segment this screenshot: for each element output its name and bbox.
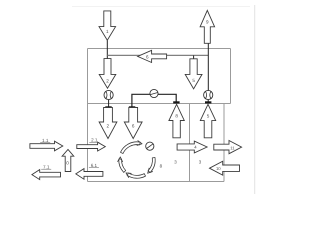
svg-text:5: 5 xyxy=(207,113,210,118)
svg-text:6.1: 6.1 xyxy=(91,163,98,168)
svg-text:1: 1 xyxy=(106,29,109,34)
svg-text:8: 8 xyxy=(175,113,178,118)
svg-text:10: 10 xyxy=(216,166,221,171)
svg-text:9: 9 xyxy=(206,20,209,25)
svg-text:2.1: 2.1 xyxy=(91,138,98,143)
svg-text:0: 0 xyxy=(66,160,69,165)
svg-text:1.1: 1.1 xyxy=(42,138,49,143)
svg-text:2: 2 xyxy=(106,79,109,84)
svg-text:11: 11 xyxy=(230,145,235,150)
svg-text:6: 6 xyxy=(146,54,149,59)
svg-text:7.1: 7.1 xyxy=(43,165,50,170)
svg-text:2: 2 xyxy=(107,124,110,129)
svg-text:5: 5 xyxy=(192,78,195,83)
svg-text:6: 6 xyxy=(132,124,135,129)
